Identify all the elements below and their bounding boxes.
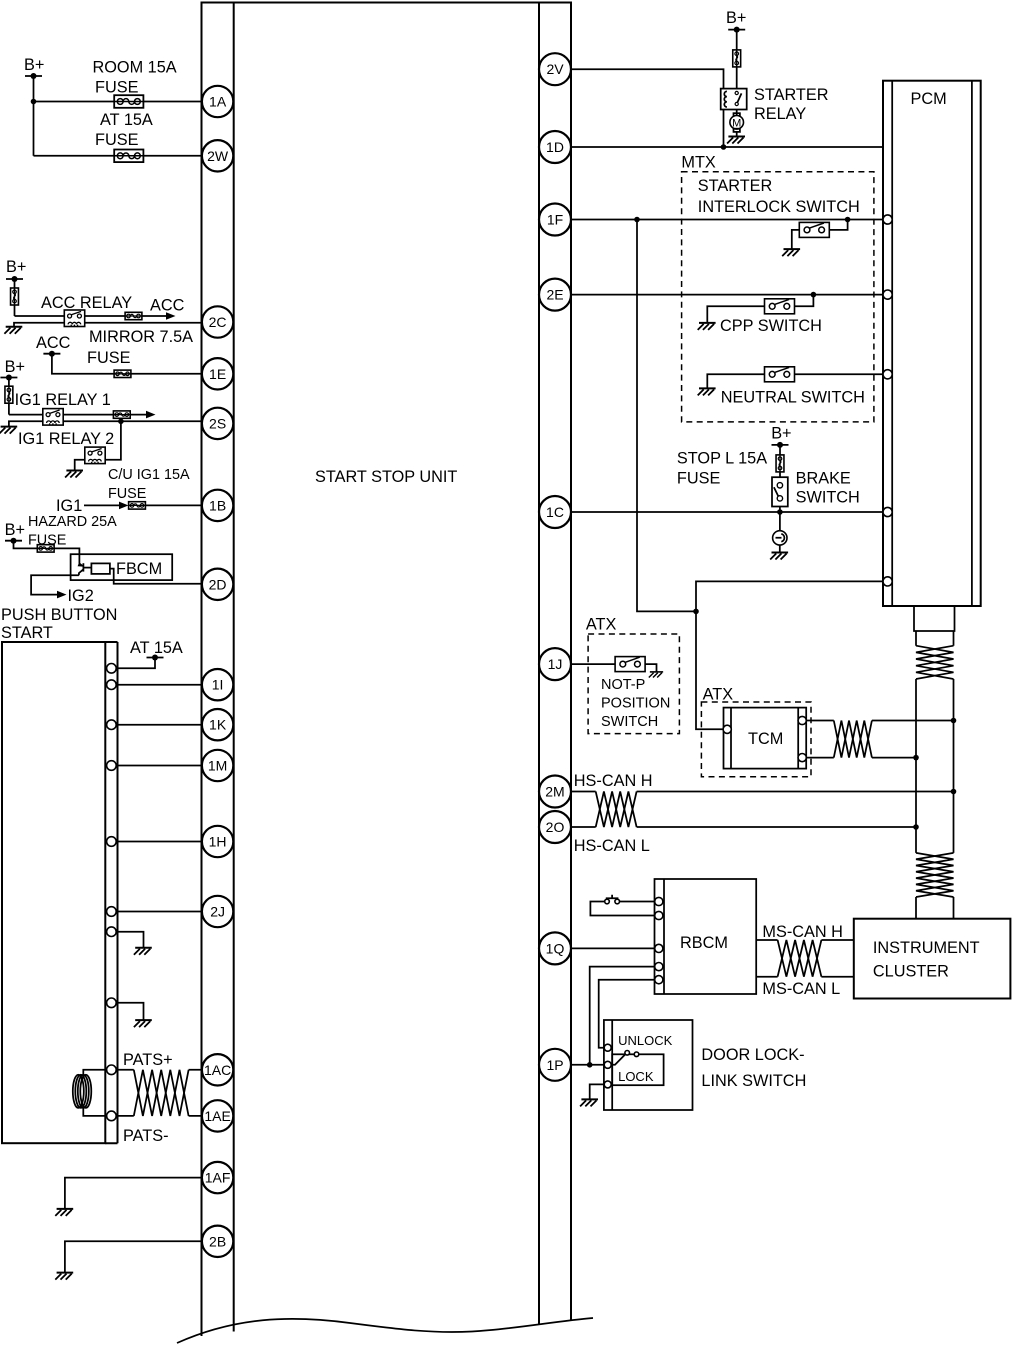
junction dot (hs-can h)	[951, 789, 957, 795]
wire starter relay coil to 1D line	[723, 110, 725, 148]
module TCM	[724, 708, 807, 769]
junction dot (hs-can l)	[913, 824, 919, 830]
svg-text:START STOP UNIT: START STOP UNIT	[315, 468, 457, 486]
svg-text:PATS+: PATS+	[123, 1051, 173, 1069]
svg-text:MS-CAN H: MS-CAN H	[762, 923, 843, 941]
junction dot (interlock branch)	[845, 217, 851, 223]
svg-text:2M: 2M	[545, 784, 564, 800]
svg-text:2E: 2E	[546, 287, 563, 303]
pin 1E	[202, 358, 233, 389]
svg-text:STARTER: STARTER	[754, 86, 828, 104]
svg-text:IG1: IG1	[56, 497, 82, 515]
junction dot (cpp branch)	[811, 292, 817, 298]
node B+ (room/at fuses)	[24, 56, 44, 79]
fuse AT 15A	[95, 111, 153, 162]
svg-text:UNLOCK: UNLOCK	[618, 1033, 673, 1048]
wire to 1A	[34, 101, 203, 103]
wire fbcm emitter to IG2	[31, 575, 79, 594]
svg-text:SWITCH: SWITCH	[796, 489, 860, 507]
relay IG1 RELAY 2	[18, 430, 114, 464]
TCM pin circles	[723, 716, 806, 761]
svg-text:FUSE: FUSE	[87, 349, 131, 367]
relay IG1 RELAY 1	[15, 391, 111, 425]
svg-text:MIRROR 7.5A: MIRROR 7.5A	[89, 328, 193, 346]
lamp (stop lamp)	[773, 531, 787, 545]
pin 1I	[202, 669, 233, 700]
svg-text:START: START	[1, 624, 53, 642]
wire AT 15A to pushbutton	[112, 658, 155, 669]
wire RBCM to 1P line	[590, 967, 655, 1065]
START STOP UNIT right connector bar	[539, 3, 571, 1325]
wire B+ down to ig1 relay 1	[9, 378, 43, 415]
svg-text:1AC: 1AC	[204, 1062, 231, 1078]
wire 1F to PCM	[571, 219, 883, 221]
pin 1AE	[202, 1100, 233, 1131]
wire RBCM to door lock (unlock side)	[599, 980, 655, 1048]
junction dot (tcm L on left trunk)	[913, 755, 919, 761]
switch NOT-P POSITION SWITCH	[601, 657, 670, 730]
wire 1C to PCM	[571, 511, 883, 513]
MTX dashed box	[681, 154, 873, 422]
wire RBCM to cluster (ms-can leads)	[756, 940, 854, 977]
START STOP UNIT left connector bar	[202, 3, 234, 1337]
svg-text:STARTER: STARTER	[698, 177, 772, 195]
wire branch up to PCM	[696, 581, 883, 611]
svg-text:NOT-P: NOT-P	[601, 677, 645, 693]
ground (acc relay)	[4, 327, 22, 334]
RBCM pin circles	[655, 897, 663, 983]
bottom break wavy line	[177, 1318, 593, 1343]
junction dot ig1 relay2 branch	[118, 419, 124, 425]
wire pushbutton ground 2	[112, 1003, 144, 1020]
pin 1A	[202, 86, 233, 117]
svg-text:BRAKE: BRAKE	[796, 470, 851, 488]
ground (stop lamp)	[770, 553, 788, 560]
svg-text:RELAY: RELAY	[754, 105, 806, 123]
ground (not-p switch)	[649, 672, 663, 678]
ground (ig1 relay1)	[0, 427, 17, 434]
wire to stop lamp	[779, 512, 781, 531]
wire 1P to door lock switch	[571, 1064, 604, 1066]
svg-text:NEUTRAL SWITCH: NEUTRAL SWITCH	[721, 389, 865, 407]
node ACC (mirror fuse)	[36, 334, 71, 357]
svg-text:IG1 RELAY 2: IG1 RELAY 2	[18, 430, 114, 448]
svg-text:LINK SWITCH: LINK SWITCH	[701, 1072, 806, 1090]
svg-text:1K: 1K	[209, 717, 227, 733]
wire acc to 1E	[52, 354, 202, 374]
wire pushbutton to 1I	[112, 684, 202, 686]
svg-text:1D: 1D	[546, 139, 564, 155]
svg-text:IG1 RELAY 1: IG1 RELAY 1	[15, 391, 111, 409]
wire acc relay coil to ground	[14, 323, 65, 327]
arrow ACC	[150, 297, 185, 320]
wire not-p switch to ground	[645, 664, 656, 672]
svg-text:INSTRUMENT: INSTRUMENT	[873, 939, 980, 957]
PCM pin circles	[883, 215, 892, 586]
svg-text:ACC: ACC	[36, 334, 71, 352]
twisted pair (trunk upper)	[916, 646, 954, 679]
door lock pin circles	[604, 1044, 611, 1088]
pin 2J	[202, 896, 233, 927]
pushbutton strip pin circles	[107, 664, 117, 1121]
svg-text:B+: B+	[5, 358, 25, 376]
svg-text:CLUSTER: CLUSTER	[873, 963, 949, 981]
svg-text:PUSH BUTTON: PUSH BUTTON	[1, 606, 117, 624]
ATX dashed box (tcm)	[701, 685, 811, 776]
wire interlock switch to ground	[792, 230, 800, 249]
fuse (starter relay supply)	[733, 50, 741, 67]
svg-text:B+: B+	[771, 425, 791, 443]
ground (ig1 relay2)	[65, 471, 83, 478]
PCM connector stub	[914, 606, 955, 631]
fuse HAZARD 25A	[28, 514, 117, 552]
svg-text:AT 15A: AT 15A	[130, 639, 183, 657]
wire neutral switch to PCM	[795, 373, 883, 375]
svg-text:RBCM: RBCM	[680, 934, 728, 952]
junction dot (1P/rbcm)	[587, 1062, 593, 1068]
svg-text:C/U IG1 15A: C/U IG1 15A	[108, 467, 190, 483]
wire 2V to starter relay coil	[571, 69, 724, 88]
svg-text:2V: 2V	[546, 61, 564, 77]
svg-text:FUSE: FUSE	[28, 533, 66, 549]
fuse ROOM 15A	[93, 59, 177, 108]
svg-text:PATS-: PATS-	[123, 1127, 169, 1145]
arrow IG2	[57, 587, 94, 605]
svg-text:B+: B+	[24, 56, 44, 74]
junction dot (1D line)	[721, 144, 727, 150]
svg-text:2C: 2C	[209, 314, 227, 330]
svg-text:1B: 1B	[209, 497, 226, 513]
svg-text:HAZARD 25A: HAZARD 25A	[28, 514, 117, 530]
wire lock pin to ground	[590, 1084, 605, 1099]
LOCK contact box	[612, 1054, 663, 1085]
pin 2C	[202, 306, 233, 337]
svg-text:2W: 2W	[207, 148, 229, 164]
junction dot (pcm/tcm branch)	[693, 609, 699, 615]
svg-text:FUSE: FUSE	[108, 486, 146, 502]
wire brake switch to 1C line	[779, 507, 781, 513]
wire 2B to ground	[65, 1241, 202, 1272]
wire coil top to pushbutton	[83, 1070, 107, 1075]
DOOR LOCK-LINK SWITCH box	[604, 1020, 806, 1110]
svg-text:B+: B+	[5, 521, 25, 539]
svg-text:2D: 2D	[209, 576, 227, 592]
svg-text:PCM: PCM	[911, 90, 947, 108]
wire stop lamp to ground	[779, 545, 781, 552]
module FBCM	[71, 554, 173, 580]
arrow (ig1 output)	[146, 411, 156, 419]
svg-text:SWITCH: SWITCH	[601, 714, 658, 730]
svg-text:STOP L 15A: STOP L 15A	[677, 450, 767, 468]
svg-text:1F: 1F	[547, 212, 563, 228]
node B+ (hazard fuse)	[5, 521, 25, 544]
svg-text:FBCM: FBCM	[116, 560, 162, 578]
wire pushbutton to 2J	[112, 911, 202, 913]
wire B+ down	[33, 76, 35, 156]
pin 1K	[202, 709, 233, 740]
push start switch (rbcm input)	[590, 895, 654, 916]
pin 2S	[202, 408, 233, 439]
relay ACC RELAY	[41, 294, 132, 327]
pin 1P	[539, 1049, 571, 1081]
ground (neutral switch)	[698, 388, 716, 395]
svg-text:1Q: 1Q	[546, 940, 565, 956]
svg-text:2O: 2O	[546, 819, 565, 835]
junction dot (1F branch down)	[634, 217, 640, 223]
wire 1Q to RBCM	[571, 947, 655, 949]
pin 2V	[539, 53, 571, 85]
svg-text:1H: 1H	[209, 834, 227, 850]
wire tcm pair to trunk lines	[872, 721, 954, 758]
svg-text:B+: B+	[6, 258, 26, 276]
pin 1F	[539, 204, 571, 236]
wire ig1 relay1 coil to 2S	[63, 421, 202, 423]
node B+ (acc relay)	[6, 258, 26, 282]
junction dot (brake/1C)	[777, 509, 783, 515]
ground (cpp switch)	[698, 323, 716, 330]
svg-text:1P: 1P	[546, 1057, 563, 1073]
fuse (acc relay supply)	[11, 288, 19, 305]
wire B+ through fuse to brake switch	[779, 445, 781, 477]
svg-text:2B: 2B	[209, 1233, 226, 1249]
wire B+ down to acc relay	[15, 279, 65, 316]
junction dot 1A branch	[31, 99, 37, 105]
fuse (ig1 supply)	[5, 386, 13, 403]
pin 2O	[539, 811, 571, 843]
wire 2E to PCM	[571, 294, 883, 296]
wire 1F branch trunk down	[637, 220, 696, 612]
resistor (fbcm)	[83, 563, 110, 574]
wire pushbutton ground 1	[112, 932, 144, 948]
fuse MIRROR 7.5A	[87, 328, 193, 377]
node B+ (starter relay)	[726, 9, 746, 33]
wire pushbutton to 1M	[112, 765, 202, 767]
wire fbcm output to 2D	[110, 569, 202, 584]
transistor (fbcm driver)	[78, 563, 84, 575]
wire 1AF to ground	[65, 1178, 202, 1209]
pin 1Q	[539, 932, 571, 964]
svg-text:1AE: 1AE	[204, 1108, 230, 1124]
pin 1B	[202, 490, 233, 521]
wire ig1 relay2 to ground	[75, 460, 85, 471]
PATS antenna coil	[73, 1075, 92, 1108]
wire 2M / 2O leads	[571, 792, 596, 828]
wire neutral switch to ground	[707, 374, 764, 388]
wire 1D to PCM	[571, 146, 883, 148]
label STARTER INTERLOCK SWITCH	[698, 177, 860, 216]
svg-text:B+: B+	[726, 9, 746, 27]
pin 1M	[202, 750, 233, 781]
wire B+ to starter relay	[736, 30, 738, 89]
svg-text:ATX: ATX	[586, 616, 617, 634]
svg-text:M: M	[732, 117, 741, 129]
svg-text:2J: 2J	[210, 904, 225, 920]
svg-text:FUSE: FUSE	[677, 470, 721, 488]
junction dot (tcm H on right trunk)	[951, 718, 957, 724]
wire HS-CAN H to right trunk	[637, 791, 954, 793]
ground (1AF)	[55, 1209, 73, 1216]
node B+ (stop lamp fuse)	[771, 425, 791, 448]
twisted pair MS-CAN	[778, 940, 822, 977]
twisted pair TCM to trunk	[806, 721, 834, 758]
pin 1AF	[202, 1162, 233, 1193]
svg-text:ATX: ATX	[703, 685, 734, 703]
wire coil bottom to pushbutton	[83, 1108, 107, 1116]
switch BRAKE SWITCH	[772, 470, 860, 507]
wire ig1 relay1 output	[63, 414, 148, 416]
ground (2B)	[55, 1273, 73, 1280]
wire cpp switch to ground	[707, 306, 764, 323]
svg-text:TCM: TCM	[748, 730, 783, 748]
svg-text:1C: 1C	[546, 504, 564, 520]
wire to ig1 relay 2	[105, 421, 121, 460]
trunk wires below stub	[916, 631, 954, 919]
svg-text:AT 15A: AT 15A	[100, 111, 153, 129]
START STOP UNIT top edge	[201, 2, 573, 4]
svg-text:1I: 1I	[212, 677, 224, 693]
svg-text:ACC: ACC	[150, 297, 185, 315]
svg-text:2S: 2S	[209, 415, 226, 431]
svg-text:MTX: MTX	[681, 154, 716, 172]
svg-text:LOCK: LOCK	[618, 1069, 654, 1084]
ground (interlock switch)	[782, 249, 800, 256]
fuse (ig1 output)	[113, 411, 130, 418]
svg-text:MS-CAN L: MS-CAN L	[762, 980, 840, 998]
switch CPP SWITCH	[720, 299, 822, 335]
svg-text:ACC RELAY: ACC RELAY	[41, 294, 132, 312]
module INSTRUMENT CLUSTER	[854, 919, 1011, 999]
pin 1AC	[202, 1054, 233, 1085]
svg-text:HS-CAN H: HS-CAN H	[574, 772, 653, 790]
svg-text:FUSE: FUSE	[95, 131, 139, 149]
wire ig1 relay1 coil to ground	[9, 421, 43, 426]
wire B+ through hazard fuse to FBCM	[14, 541, 80, 564]
pin 2E	[539, 279, 571, 311]
svg-text:1A: 1A	[209, 94, 227, 110]
ground (starter motor)	[727, 137, 745, 144]
arrow (ig1 into fuse)	[119, 502, 129, 510]
fuse C/U IG1 15A	[108, 467, 190, 509]
fuse STOP L 15A	[677, 450, 784, 488]
svg-text:CPP SWITCH: CPP SWITCH	[720, 317, 822, 335]
motor M (starter)	[730, 110, 744, 137]
svg-text:DOOR LOCK-: DOOR LOCK-	[701, 1046, 804, 1064]
switch arm (door lock)	[611, 1051, 639, 1065]
pin 2M	[539, 776, 571, 808]
pin 1J	[539, 648, 571, 680]
pin 1H	[202, 826, 233, 857]
pin 2W	[202, 140, 233, 171]
relay STARTER RELAY	[721, 86, 829, 123]
ground (door lock)	[580, 1099, 598, 1106]
PUSH BUTTON START unit box	[1, 606, 118, 1143]
wire acc relay output	[85, 315, 169, 317]
twisted pair (trunk lower)	[916, 853, 954, 897]
svg-text:INTERLOCK SWITCH: INTERLOCK SWITCH	[698, 198, 860, 216]
module RBCM	[655, 879, 757, 994]
wire IG1 to 1B	[84, 504, 202, 506]
svg-text:IG2: IG2	[68, 587, 94, 605]
svg-text:POSITION: POSITION	[601, 696, 670, 712]
svg-text:1AF: 1AF	[205, 1170, 231, 1186]
pin 2D	[202, 569, 233, 600]
wire interlock switch to 1F line	[830, 220, 848, 230]
node B+ (ig1 relays)	[0, 358, 25, 381]
svg-text:1J: 1J	[548, 656, 563, 672]
ground (pushbutton 1)	[134, 948, 152, 955]
svg-text:HS-CAN L: HS-CAN L	[574, 837, 650, 855]
pin 1D	[539, 131, 571, 163]
svg-text:ROOM 15A: ROOM 15A	[93, 59, 177, 77]
ground (pushbutton 2)	[134, 1020, 152, 1027]
svg-text:1M: 1M	[208, 758, 227, 774]
wire cpp switch to 2E line	[795, 295, 814, 307]
module PCM	[883, 81, 981, 606]
pin 1C	[539, 496, 571, 528]
fuse (acc output)	[125, 312, 142, 319]
wire branch down to TCM	[696, 611, 724, 729]
twisted pair PATS to 1AC/1AE	[116, 1070, 202, 1116]
wire pushbutton to 1H	[112, 841, 202, 843]
wire 1J to not-p switch	[571, 663, 615, 665]
wire acc relay coil to 2C	[85, 322, 203, 324]
node AT 15A	[130, 639, 183, 661]
wire HS-CAN L to left trunk	[637, 826, 916, 828]
twisted pair HS-CAN	[596, 792, 637, 828]
switch STARTER INTERLOCK SWITCH	[799, 222, 829, 237]
pin 2B	[202, 1226, 233, 1257]
wire to 2W	[34, 155, 203, 157]
svg-text:1E: 1E	[209, 366, 226, 382]
svg-text:FUSE: FUSE	[95, 79, 139, 97]
ATX dashed box (not-p)	[586, 616, 679, 734]
wire pushbutton to 1K	[112, 724, 202, 726]
switch NEUTRAL SWITCH	[721, 367, 865, 407]
